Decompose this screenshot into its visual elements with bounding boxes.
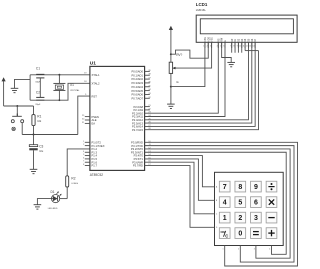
wire VDD to +5V — [171, 42, 208, 58]
svg-text:C: C — [225, 233, 228, 238]
svg-text:8: 8 — [233, 46, 234, 48]
svg-text:D1: D1 — [51, 190, 55, 194]
resistor R1 — [32, 106, 42, 135]
node VDD tap — [170, 53, 172, 55]
resistor R2 — [66, 176, 79, 199]
LED D1 — [48, 190, 62, 210]
svg-text:P1.7: P1.7 — [92, 164, 98, 168]
keypad body — [215, 172, 284, 245]
svg-text:LM016L: LM016L — [196, 8, 207, 12]
lcd pin names — [205, 37, 257, 42]
wire P1.2 to R2 — [67, 149, 90, 176]
svg-text:P0.1/AD1: P0.1/AD1 — [131, 73, 143, 77]
svg-text:0.300k: 0.300k — [71, 183, 78, 185]
wire RW to ground — [222, 42, 232, 62]
svg-text:1: 1 — [223, 248, 224, 250]
svg-text:X1: X1 — [70, 83, 74, 87]
mcu U1 label — [90, 61, 96, 67]
svg-text:4: 4 — [223, 200, 227, 207]
lcd LCD1 part name — [196, 8, 207, 12]
wire D1 left to ground — [37, 199, 51, 205]
svg-text:P3.7/RD: P3.7/RD — [133, 164, 143, 168]
svg-text:P0.3/AD3: P0.3/AD3 — [131, 81, 143, 85]
svg-text:P0.6/AD6: P0.6/AD6 — [131, 93, 143, 97]
mcu right pin stubs — [145, 70, 152, 166]
svg-text:C1: C1 — [36, 66, 40, 70]
svg-text:3: 3 — [254, 248, 255, 250]
svg-text:12: 12 — [246, 46, 248, 48]
svg-text:D6: D6 — [252, 38, 254, 42]
mcu U1 part name — [90, 173, 103, 177]
svg-text:9: 9 — [254, 184, 258, 191]
keypad row pin letters — [216, 186, 218, 230]
wire left cap rail — [29, 75, 31, 100]
svg-text:LCD1: LCD1 — [196, 2, 208, 7]
svg-text:P0.4/AD4: P0.4/AD4 — [131, 85, 143, 89]
keypad column pin numbers — [223, 248, 271, 250]
ground (crystal caps) — [11, 88, 19, 92]
svg-text:R2: R2 — [71, 176, 75, 180]
capacitor C2 — [35, 91, 44, 107]
svg-text:7: 7 — [223, 184, 227, 191]
svg-text:U1: U1 — [90, 61, 96, 67]
svg-text:AT89C52: AT89C52 — [90, 173, 103, 177]
svg-text:6: 6 — [223, 46, 224, 48]
wire button to RST net — [21, 123, 23, 135]
svg-text:5: 5 — [220, 46, 221, 48]
svg-text:5: 5 — [238, 200, 242, 207]
wire RST net bottom run — [22, 134, 78, 136]
wire LCD data jog — [245, 50, 258, 52]
svg-text:P2.7/A15: P2.7/A15 — [132, 128, 144, 132]
wire button stem — [16, 106, 18, 114]
svg-text:1: 1 — [223, 215, 227, 222]
lcd D0-D3 unconnected stubs — [232, 42, 242, 52]
svg-text:7: 7 — [230, 46, 231, 48]
svg-text:P0.2/AD2: P0.2/AD2 — [131, 77, 143, 81]
node crystal tap — [58, 74, 60, 76]
svg-text:2: 2 — [207, 46, 208, 48]
svg-text:3: 3 — [210, 46, 211, 48]
wire ground tap — [15, 79, 31, 88]
svg-text:XTAL2: XTAL2 — [92, 81, 101, 85]
svg-text:VDD: VDD — [208, 37, 210, 42]
svg-text:ALE: ALE — [92, 118, 97, 122]
lcd LCD1 label — [196, 2, 208, 7]
mcu U1 box — [90, 66, 145, 170]
wire E to P2.3 — [145, 42, 225, 116]
svg-text:2: 2 — [238, 215, 242, 222]
svg-text:2: 2 — [238, 248, 239, 250]
svg-text:1: 1 — [203, 46, 204, 48]
mcu left pin stubs — [82, 115, 90, 166]
crystal X1 — [53, 75, 80, 101]
wire XTAL1 (W1) — [30, 74, 90, 76]
svg-text:11: 11 — [243, 46, 245, 48]
wires P3.0-P3.3 to keypad columns — [145, 142, 298, 266]
wire XTAL2 (W2) — [30, 83, 90, 100]
node R1/C3 junction — [33, 134, 35, 136]
svg-text:8: 8 — [238, 184, 242, 191]
wire VEE to pot wiper — [176, 42, 212, 68]
svg-text:RST: RST — [92, 94, 98, 98]
svg-text:4: 4 — [217, 46, 218, 48]
pin number 19 — [84, 73, 87, 75]
wire +5V rail to R1 top — [4, 105, 34, 107]
wires LCD D4-D7 to P2.4-P2.7 — [145, 42, 259, 129]
capacitor C3 — [29, 135, 44, 170]
ground (pot) — [167, 104, 175, 108]
svg-text:R1: R1 — [37, 114, 41, 118]
wire RS to P2.2 — [145, 42, 219, 113]
svg-text:13: 13 — [249, 46, 251, 48]
wire D1 right to R2 — [60, 198, 67, 200]
svg-text:C2: C2 — [36, 91, 40, 95]
power +5V (reset rail) — [2, 77, 6, 106]
wire RST — [78, 96, 90, 134]
svg-text:10u: 10u — [39, 150, 44, 153]
node wiper — [173, 67, 175, 69]
svg-text:PSEN: PSEN — [92, 115, 99, 119]
svg-text:VEE: VEE — [212, 37, 214, 42]
potentiometer RV? — [169, 53, 182, 104]
svg-text:RV?: RV? — [176, 53, 182, 57]
svg-text:LED-RED: LED-RED — [48, 208, 58, 210]
svg-text:RS: RS — [218, 38, 220, 42]
ground (RW) — [227, 62, 235, 66]
lcd LCD1 body — [196, 15, 297, 42]
svg-text:P0.7/AD7: P0.7/AD7 — [131, 96, 143, 100]
button reset — [11, 114, 23, 131]
svg-text:CRYSTAL: CRYSTAL — [70, 89, 80, 92]
pin number 9 — [85, 94, 87, 96]
ground (LED) — [34, 205, 42, 209]
svg-text:10: 10 — [239, 46, 241, 48]
svg-text:9: 9 — [237, 46, 238, 48]
mcu right pin names — [131, 70, 144, 168]
wires P3.4-P3.7 to keypad rows — [145, 156, 215, 228]
power +5V (LCD) — [169, 26, 173, 62]
svg-text:4: 4 — [269, 248, 270, 250]
svg-text:14: 14 — [253, 46, 255, 48]
ground (C3) — [30, 169, 38, 173]
pin number 18 — [84, 81, 87, 83]
svg-text:EA: EA — [92, 122, 96, 126]
svg-text:C3: C3 — [39, 144, 43, 148]
capacitor C1 — [35, 66, 44, 83]
svg-text:P0.0/AD0: P0.0/AD0 — [131, 70, 143, 74]
svg-text:XTAL1: XTAL1 — [92, 73, 101, 77]
lcd pin numbers — [203, 46, 254, 48]
svg-text:3: 3 — [254, 215, 258, 222]
svg-text:VSS: VSS — [205, 37, 207, 42]
keypad keys — [219, 181, 277, 238]
wire C1-C2 — [39, 78, 41, 98]
svg-text:33pF: 33pF — [35, 104, 41, 106]
lcd pin stubs — [205, 42, 255, 48]
node pot bottom / VSS — [170, 86, 172, 88]
node button tap — [16, 105, 18, 107]
mcu left pin names — [92, 73, 105, 168]
svg-text:P0.5/AD5: P0.5/AD5 — [131, 89, 143, 93]
svg-text:0: 0 — [238, 231, 242, 238]
wire VSS to pot bottom — [171, 42, 205, 86]
svg-text:ON: ON — [221, 230, 225, 234]
svg-text:6: 6 — [254, 200, 258, 207]
